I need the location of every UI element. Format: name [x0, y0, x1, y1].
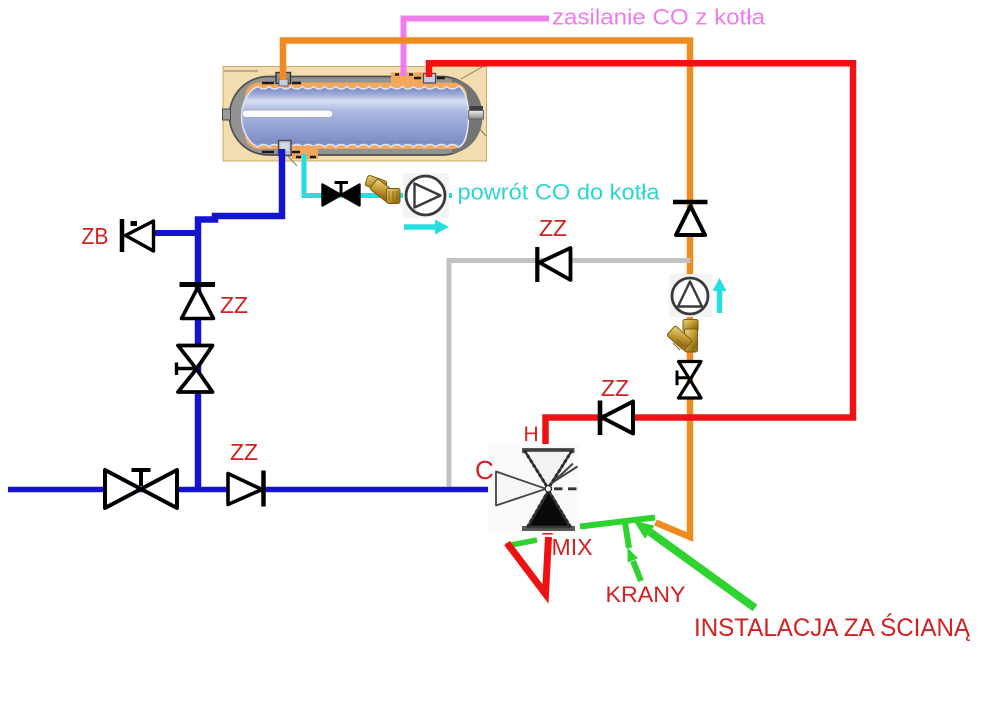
svg-text:MIX: MIX [552, 534, 593, 560]
svg-text:zasilanie CO z kotła: zasilanie CO z kotła [552, 5, 766, 30]
top fitting right [424, 74, 436, 84]
green stub down [625, 519, 630, 548]
storage tank (horizontal cylinder with insulation) [223, 67, 487, 167]
notch marks [262, 75, 445, 158]
green dashed stub at mix [506, 540, 537, 546]
bottom port triangle [522, 526, 575, 531]
svg-text:H: H [524, 423, 539, 446]
left port triangle [496, 472, 546, 506]
svg-text:ZZ: ZZ [230, 439, 258, 465]
top fitting left [276, 73, 291, 84]
cyan up arrow at pump [717, 291, 723, 313]
right dashed port [554, 487, 579, 490]
svg-text:INSTALACJA ZA ŚCIANĄ: INSTALACJA ZA ŚCIANĄ [694, 612, 970, 642]
pink pipe: zasilanie CO [404, 19, 550, 77]
inner cylinder [242, 87, 469, 148]
svg-text:ZZ: ZZ [601, 375, 629, 401]
construction lines [224, 67, 486, 167]
green arrow INSTALACJA [650, 532, 755, 608]
ZB check valve [122, 219, 154, 252]
red pipe: hot supply loop [429, 63, 853, 451]
main gate valve on cold line [105, 470, 177, 508]
small valve on orange riser [677, 362, 701, 399]
ZZ check valve on cold line [228, 471, 264, 507]
svg-text:C: C [475, 455, 494, 485]
ZZ check valve on blue riser [180, 285, 216, 319]
pump on orange riser [669, 274, 712, 317]
green line from mix valve [580, 518, 655, 527]
orange pipe: from tank top around to right column [283, 41, 690, 538]
green arrow KRANY [633, 561, 641, 581]
left flange tab [223, 109, 231, 120]
red arrowhead to valve [542, 528, 554, 535]
right nub [470, 106, 484, 111]
red MIX check mark [507, 537, 549, 594]
tank shell [230, 77, 481, 156]
svg-text:ZZ: ZZ [220, 292, 248, 318]
svg-text:KRANY: KRANY [606, 582, 686, 607]
valve on cyan line (black bowtie) [323, 183, 360, 206]
svg-text:ZB: ZB [82, 223, 109, 249]
check valve on orange riser [673, 202, 708, 235]
knurled edges [525, 451, 573, 489]
blue stub to ZB valve [153, 230, 200, 236]
MIX mixing valve [488, 444, 579, 533]
Y-strainer on orange riser (brass) [667, 320, 698, 353]
gate valve on blue riser [177, 346, 213, 393]
svg-text:ZZ: ZZ [539, 215, 567, 241]
handle lines [549, 464, 578, 487]
insulation layer [245, 83, 467, 150]
gray pipe [449, 261, 691, 487]
cyan flow arrow [404, 224, 435, 230]
blue main cold line [8, 487, 493, 493]
pump on cyan line [403, 173, 449, 218]
insulation windows [391, 73, 436, 86]
blue pipe: cold from tank down [198, 149, 282, 489]
cyan pipe: powrot CO [304, 154, 452, 196]
top port triangle [522, 448, 575, 453]
svg-text:powrót CO do kotła: powrót CO do kotła [458, 180, 661, 205]
tank board [223, 67, 487, 162]
heater tube [242, 110, 333, 118]
bottom fitting [279, 141, 292, 156]
shell right end cap [452, 79, 483, 154]
ZZ check valve on red line [600, 401, 633, 436]
Y-strainer on cyan line (brass) [365, 175, 400, 204]
ZZ check valve on gray line [537, 247, 570, 282]
center ball [545, 486, 551, 492]
